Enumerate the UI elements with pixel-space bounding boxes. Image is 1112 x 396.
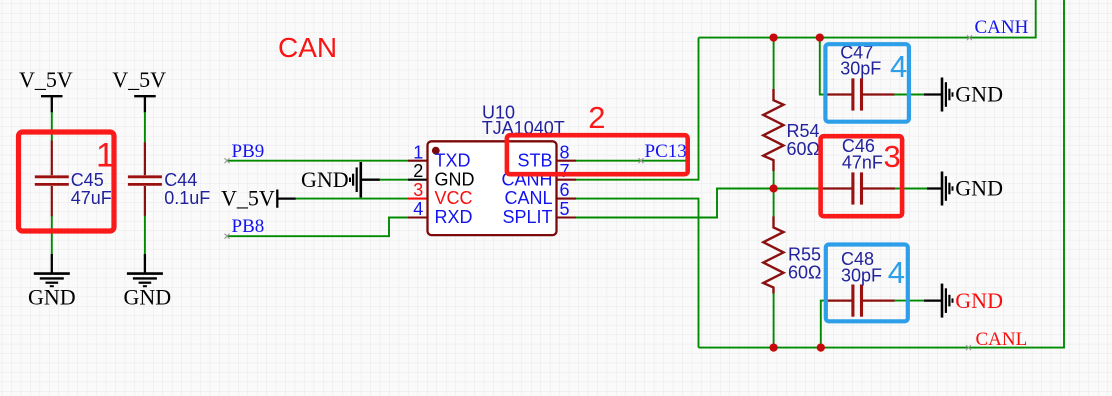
wire CANL pin6 down: [576, 199, 699, 348]
pin 1 stub: [408, 160, 427, 162]
wire C46 to GND: [895, 188, 928, 190]
node marker PB9: [225, 158, 230, 163]
junction C47 branch: [816, 33, 824, 41]
wire C48 to GND: [895, 300, 926, 302]
wire V_5V to C44: [144, 112, 146, 143]
svg-text:7: 7: [560, 161, 570, 181]
ground GND (below C44): [127, 254, 163, 286]
wire C45 to GND: [51, 216, 53, 255]
svg-text:CANL: CANL: [976, 329, 1028, 350]
junction R55 bottom: [769, 343, 777, 351]
pin 6 stub: [557, 198, 577, 200]
wire CANL bottom rail: [699, 0, 1065, 348]
capacitor C45: [51, 141, 53, 217]
wire branch to C47: [820, 38, 824, 95]
svg-text:GND: GND: [28, 284, 76, 309]
svg-text:VCC: VCC: [435, 188, 473, 208]
capacitor C44: [144, 143, 146, 217]
wire CANH pin7 up to rail: [576, 38, 699, 180]
svg-text:V_5V: V_5V: [112, 67, 166, 92]
node marker PB8: [225, 234, 230, 239]
power port V_5V (at pin3): [277, 190, 296, 208]
svg-text:STB: STB: [517, 150, 552, 170]
node marker CANH: [967, 35, 972, 40]
pin1 dot: [432, 147, 440, 155]
svg-text:1: 1: [413, 142, 423, 162]
pin 4 stub: [408, 216, 427, 218]
svg-text:60Ω: 60Ω: [788, 262, 821, 282]
svg-text:V_5V: V_5V: [221, 185, 275, 210]
svg-text:4: 4: [890, 49, 907, 84]
wire R55 bottom: [773, 293, 775, 348]
wire V_5V to pin3: [296, 198, 409, 200]
svg-text:TXD: TXD: [435, 150, 471, 170]
svg-text:30pF: 30pF: [840, 59, 881, 79]
svg-text:GND: GND: [955, 82, 1003, 107]
svg-text:3: 3: [413, 180, 423, 200]
wire PB8 to pin4: [227, 218, 409, 237]
annotation box 1: [19, 132, 115, 231]
svg-text:3: 3: [884, 139, 901, 174]
wire branch to C48: [821, 301, 827, 348]
ground GND (below C45): [34, 254, 70, 286]
svg-text:PC13: PC13: [645, 141, 687, 162]
pin 7 stub: [557, 179, 577, 181]
svg-text:0.1uF: 0.1uF: [164, 188, 210, 208]
svg-text:R55: R55: [788, 244, 821, 264]
svg-text:R54: R54: [787, 121, 820, 141]
svg-text:GND: GND: [301, 167, 349, 192]
junction R54/R55 middle: [769, 184, 777, 192]
power port V_5V (for C45): [41, 96, 63, 112]
svg-text:GND: GND: [124, 284, 172, 309]
power ground GND (C47): [924, 78, 953, 112]
svg-text:2: 2: [413, 161, 423, 181]
wire R54 bottom: [773, 171, 775, 189]
svg-text:6: 6: [560, 180, 570, 200]
wire SPLIT to middle rail: [576, 189, 823, 218]
svg-text:2: 2: [588, 100, 605, 135]
capacitor C47: [824, 93, 895, 95]
annotation box 2: [507, 135, 688, 174]
IC U10 TJA1040T body: [428, 141, 557, 235]
annotation box 3: [821, 136, 903, 216]
svg-text:8: 8: [560, 142, 570, 162]
power port V_5V (for C44): [134, 96, 156, 112]
svg-text:SPLIT: SPLIT: [502, 207, 552, 227]
junction C48 branch: [817, 343, 825, 351]
svg-text:60Ω: 60Ω: [787, 139, 820, 159]
wire R54 top: [773, 38, 775, 90]
node marker CANL: [966, 345, 971, 350]
wire C47 to GND: [894, 94, 925, 96]
svg-text:30pF: 30pF: [841, 266, 882, 286]
wire V_5V to C45: [51, 112, 53, 141]
pin 5 stub: [557, 216, 577, 218]
svg-text:47nF: 47nF: [842, 152, 883, 172]
svg-text:GND: GND: [955, 288, 1003, 313]
wire C44 to GND: [144, 216, 146, 255]
power ground GND (at pin2): [350, 162, 380, 198]
svg-text:PB8: PB8: [232, 216, 265, 237]
svg-text:V_5V: V_5V: [19, 67, 73, 92]
pin 8 stub: [557, 160, 577, 162]
svg-text:4: 4: [413, 199, 423, 219]
wire STB to PC13: [576, 160, 689, 162]
svg-text:PB9: PB9: [232, 141, 265, 162]
wire R55 top: [773, 189, 775, 218]
wire GND to pin2: [380, 179, 409, 181]
capacitor C46: [863, 187, 895, 189]
pin 3 stub: [408, 198, 427, 200]
svg-text:5: 5: [560, 199, 570, 219]
node marker STB: [639, 158, 644, 163]
pin 2 stub: [408, 179, 427, 181]
power ground GND (C48): [924, 284, 953, 318]
svg-text:CANH: CANH: [975, 17, 1029, 38]
svg-text:GND: GND: [955, 176, 1003, 201]
svg-text:4: 4: [888, 255, 905, 290]
annotation box 4a: [825, 44, 909, 122]
svg-text:GND: GND: [435, 169, 475, 189]
svg-text:RXD: RXD: [435, 207, 473, 227]
wire CANH top rail: [699, 0, 1036, 38]
resistor R54: [763, 89, 783, 171]
svg-text:CAN: CAN: [278, 32, 337, 63]
capacitor C48: [826, 300, 894, 302]
wire PB9 to pin1: [227, 160, 409, 162]
svg-text:47uF: 47uF: [71, 188, 112, 208]
junction R54 top: [769, 33, 777, 41]
svg-text:1: 1: [96, 137, 115, 175]
annotation box 4b: [826, 245, 908, 322]
power ground GND (C46): [927, 172, 953, 206]
middle rail lead to C46: [822, 187, 852, 189]
resistor R55: [763, 216, 783, 293]
svg-text:CANL: CANL: [504, 188, 552, 208]
